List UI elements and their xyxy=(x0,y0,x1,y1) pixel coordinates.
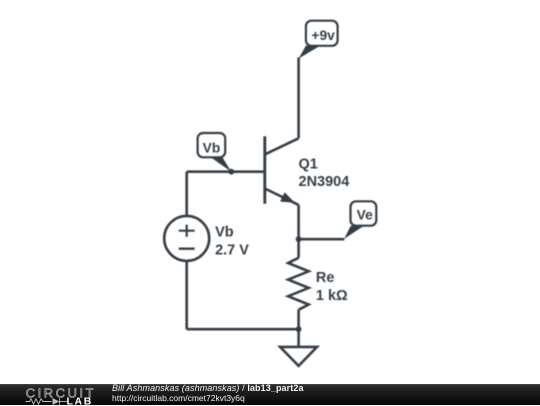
wire resistor to ground node xyxy=(297,310,300,347)
ground xyxy=(280,347,317,366)
footer url text xyxy=(112,395,245,402)
wire bottom xyxy=(187,328,299,331)
wire base to source xyxy=(185,172,188,216)
junction emitter node xyxy=(296,236,302,242)
svg-text:Re: Re xyxy=(316,270,335,286)
net flag Ve xyxy=(344,201,376,239)
wire base xyxy=(187,170,265,173)
wire +9v to collector xyxy=(297,58,300,139)
transistor Q1 xyxy=(265,136,299,205)
svg-text:LAB: LAB xyxy=(66,395,92,406)
label Vb 2.7 V xyxy=(215,224,249,258)
footer attribution text xyxy=(112,385,304,392)
svg-text:Vb: Vb xyxy=(215,224,234,240)
svg-text:Q1: Q1 xyxy=(299,156,318,172)
junction base node xyxy=(228,169,234,175)
net flag +9v xyxy=(299,21,338,59)
svg-text:2.7 V: 2.7 V xyxy=(215,243,249,259)
label Re 1 kOhm xyxy=(316,270,348,304)
junction ground node xyxy=(296,326,302,332)
footer bar xyxy=(0,384,540,405)
svg-text:Ve: Ve xyxy=(357,208,373,223)
label Q1 2N3904 xyxy=(299,156,350,190)
wire source to bottom xyxy=(185,261,188,329)
svg-text:+9v: +9v xyxy=(311,28,335,43)
resistor Re xyxy=(288,258,309,310)
CircuitLab logo xyxy=(1,385,101,406)
svg-text:2N3904: 2N3904 xyxy=(299,174,350,190)
wire emitter node to Ve xyxy=(299,238,345,241)
svg-text:1 kΩ: 1 kΩ xyxy=(316,288,348,304)
wire emitter down xyxy=(297,205,300,258)
net flag Vb xyxy=(198,133,232,172)
svg-text:Vb: Vb xyxy=(203,140,221,155)
voltage source Vb xyxy=(164,216,209,261)
